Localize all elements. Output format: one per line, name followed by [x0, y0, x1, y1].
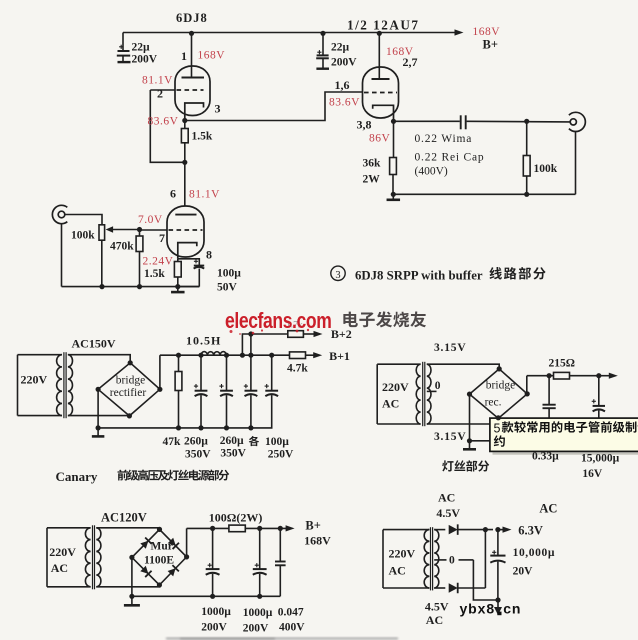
svg-text:2: 2 — [157, 87, 163, 101]
svg-text:3,8: 3,8 — [357, 118, 372, 132]
svg-text:Canary: Canary — [56, 469, 98, 484]
svg-text:200V: 200V — [331, 56, 357, 68]
svg-text:AC: AC — [389, 564, 406, 578]
svg-text:1: 1 — [181, 49, 187, 63]
svg-text:200V: 200V — [132, 54, 158, 66]
svg-text:168V: 168V — [473, 26, 501, 38]
svg-text:3.15V: 3.15V — [434, 342, 466, 354]
svg-text:1000µ: 1000µ — [243, 607, 273, 619]
svg-text:0.33µ: 0.33µ — [532, 451, 559, 463]
svg-text:6.3V: 6.3V — [518, 524, 543, 538]
svg-text:3: 3 — [215, 102, 221, 116]
svg-text:22µ: 22µ — [132, 42, 151, 54]
svg-text:100k: 100k — [534, 163, 558, 175]
svg-text:200V: 200V — [243, 623, 269, 635]
svg-text:1,6: 1,6 — [335, 78, 350, 92]
svg-text:1.5k: 1.5k — [144, 268, 165, 280]
svg-text:bridge: bridge — [486, 379, 515, 391]
svg-text:(400V): (400V) — [415, 166, 448, 178]
svg-text:7.0V: 7.0V — [138, 214, 163, 226]
svg-text:220V: 220V — [389, 547, 416, 561]
svg-text:20V: 20V — [513, 566, 534, 578]
svg-text:2W: 2W — [363, 174, 381, 186]
svg-text:3.15V: 3.15V — [434, 431, 466, 443]
svg-text:200V: 200V — [201, 622, 227, 634]
svg-text:0.22 Wima: 0.22 Wima — [415, 133, 473, 145]
svg-text:100Ω(2W): 100Ω(2W) — [209, 511, 263, 525]
svg-text:83.6V: 83.6V — [148, 116, 179, 128]
svg-text:1.5k: 1.5k — [192, 131, 213, 143]
svg-text:AC120V: AC120V — [101, 511, 147, 525]
svg-text:350V: 350V — [220, 448, 246, 460]
svg-text:81.1V: 81.1V — [142, 75, 173, 87]
svg-text:1/2 12AU7: 1/2 12AU7 — [347, 18, 419, 33]
svg-text:AC: AC — [539, 502, 557, 516]
svg-text:47k: 47k — [163, 436, 182, 448]
svg-text:220V: 220V — [49, 545, 76, 559]
svg-text:100µ: 100µ — [217, 268, 241, 280]
svg-text:0: 0 — [449, 555, 455, 567]
svg-text:4.5V: 4.5V — [436, 506, 460, 520]
svg-text:50V: 50V — [217, 282, 238, 294]
svg-text:0: 0 — [435, 380, 441, 392]
svg-text:5: 5 — [494, 421, 501, 435]
svg-text:168V: 168V — [304, 534, 331, 548]
svg-text:83.6V: 83.6V — [329, 97, 360, 109]
svg-text:8: 8 — [206, 248, 212, 262]
svg-text:100k: 100k — [71, 230, 95, 242]
svg-text:B+1: B+1 — [329, 349, 350, 363]
svg-text:7: 7 — [159, 231, 165, 245]
svg-text:250V: 250V — [268, 448, 294, 460]
svg-text:B+: B+ — [483, 38, 498, 52]
svg-text:2.24V: 2.24V — [143, 256, 174, 268]
svg-text:rec.: rec. — [485, 397, 502, 409]
svg-text:bridge: bridge — [116, 375, 145, 387]
svg-text:220V: 220V — [21, 373, 48, 387]
svg-text:10.5H: 10.5H — [186, 334, 221, 348]
svg-text:ybx8: ybx8 — [460, 601, 496, 617]
svg-text:168V: 168V — [198, 50, 226, 62]
svg-text:470k: 470k — [110, 241, 134, 253]
svg-text:AC: AC — [426, 613, 443, 627]
svg-text:81.1V: 81.1V — [189, 189, 220, 201]
svg-text:AC: AC — [382, 397, 399, 411]
svg-text:220V: 220V — [382, 380, 409, 394]
svg-text:AC: AC — [51, 561, 68, 575]
svg-text:15,000µ: 15,000µ — [581, 453, 620, 465]
svg-text:6: 6 — [170, 187, 176, 201]
svg-text:1100E: 1100E — [144, 555, 174, 567]
svg-text:Mur: Mur — [151, 541, 173, 553]
svg-text:215Ω: 215Ω — [549, 358, 575, 370]
svg-text:elecfans.com: elecfans.com — [225, 309, 331, 334]
svg-text:0.047: 0.047 — [278, 607, 304, 619]
svg-text:16V: 16V — [582, 468, 603, 480]
svg-text:4.7k: 4.7k — [287, 363, 308, 375]
svg-text:B+2: B+2 — [331, 327, 352, 341]
svg-text:3: 3 — [335, 270, 340, 281]
svg-text:rectifier: rectifier — [110, 387, 147, 399]
svg-text:cn: cn — [503, 601, 521, 617]
svg-text:AC150V: AC150V — [72, 337, 116, 351]
svg-text:0.22 Rei Cap: 0.22 Rei Cap — [415, 152, 485, 164]
svg-text:B+: B+ — [305, 519, 320, 533]
svg-text:260µ: 260µ — [184, 436, 208, 448]
svg-text:260µ: 260µ — [220, 435, 244, 447]
svg-text:168V: 168V — [386, 46, 414, 58]
svg-text:AC: AC — [438, 491, 455, 505]
svg-text:86V: 86V — [369, 133, 391, 145]
svg-text:36k: 36k — [363, 158, 382, 170]
svg-text:350V: 350V — [185, 449, 211, 461]
svg-text:100µ: 100µ — [265, 436, 289, 448]
svg-text:6DJ8 SRPP with buffer: 6DJ8 SRPP with buffer — [355, 269, 483, 283]
svg-text:6DJ8: 6DJ8 — [176, 11, 208, 25]
svg-text:1000µ: 1000µ — [201, 606, 231, 618]
svg-text:4.5V: 4.5V — [425, 600, 449, 614]
svg-text:22µ: 22µ — [331, 41, 350, 53]
svg-text:10,000µ: 10,000µ — [513, 547, 555, 559]
svg-text:400V: 400V — [279, 622, 305, 634]
